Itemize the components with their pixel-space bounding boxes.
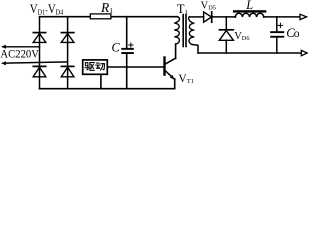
diode VD6 (freewheel) — [219, 30, 233, 41]
wire: freewheel diode VD6 top lead — [225, 17, 227, 30]
wire: VT1 emitter lead to bottom rail — [174, 79, 176, 89]
wire: bottom DC rail — [40, 88, 175, 90]
transistor VT1 (NPN) — [165, 58, 176, 80]
diode VD4 (bottom-right of bridge) — [61, 66, 74, 76]
wire: VD6 anode to output return rail — [225, 40, 227, 53]
wire: driver block ground lead — [100, 74, 102, 88]
wire: capacitor C top lead — [126, 17, 128, 48]
arrow: AC lower terminal — [1, 61, 6, 65]
wire: capacitor Co top lead — [276, 17, 278, 32]
transformer T1 core — [182, 15, 184, 47]
diode VD3 (bottom-left of bridge) — [33, 66, 46, 76]
wire: bridge right column — [67, 17, 69, 89]
wire: VD5 cathode to inductor L — [212, 16, 236, 18]
polarity + of capacitor C — [129, 43, 133, 47]
wire: capacitor C bottom lead — [126, 54, 128, 89]
capacitor Co (output electrolytic) — [270, 31, 284, 38]
label 驱动 (drive) drawn strokes — [85, 63, 94, 71]
polarity + of capacitor Co — [278, 23, 282, 27]
svg-text:C: C — [112, 41, 121, 55]
wire: secondary top to diode VD5 — [189, 16, 203, 18]
inductor L winding — [235, 13, 263, 17]
wire: capacitor Co bottom lead — [276, 38, 278, 53]
wire: driver output to transistor base — [107, 66, 163, 68]
transformer T1 primary winding — [174, 17, 179, 44]
wire: bridge left column — [39, 17, 41, 89]
svg-text:o: o — [294, 28, 300, 40]
capacitor C (electrolytic) — [121, 48, 134, 54]
arrow: output - terminal — [301, 50, 307, 55]
wire: top DC rail from R1 to transformer primary — [111, 16, 178, 18]
wire: inductor L to output + — [264, 16, 301, 18]
wire: top DC rail from bridge to resistor R1 — [40, 16, 91, 18]
diode VD5 (rectifier) — [204, 12, 212, 22]
transformer T1 secondary winding — [189, 17, 195, 45]
resistor R1 — [90, 14, 111, 19]
svg-text:L: L — [245, 0, 253, 12]
arrow: AC upper terminal — [1, 45, 6, 49]
wire: output return rail — [198, 52, 302, 54]
wire: AC input line lower (to right bridge column) — [6, 62, 68, 63]
wire: secondary bottom return (step down to output rail) — [192, 45, 198, 54]
diode VD1 (top-left of bridge) — [33, 33, 46, 43]
wire: AC input line upper (to left bridge column) — [6, 46, 40, 48]
wire: VT1 collector lead to primary — [175, 44, 177, 58]
diode VD2 (top-right of bridge) — [61, 33, 74, 43]
driver block (驱动) — [83, 60, 108, 74]
svg-text:AC220V: AC220V — [0, 46, 39, 60]
arrow: output + terminal — [300, 14, 307, 19]
inductor L core bar — [233, 10, 266, 12]
